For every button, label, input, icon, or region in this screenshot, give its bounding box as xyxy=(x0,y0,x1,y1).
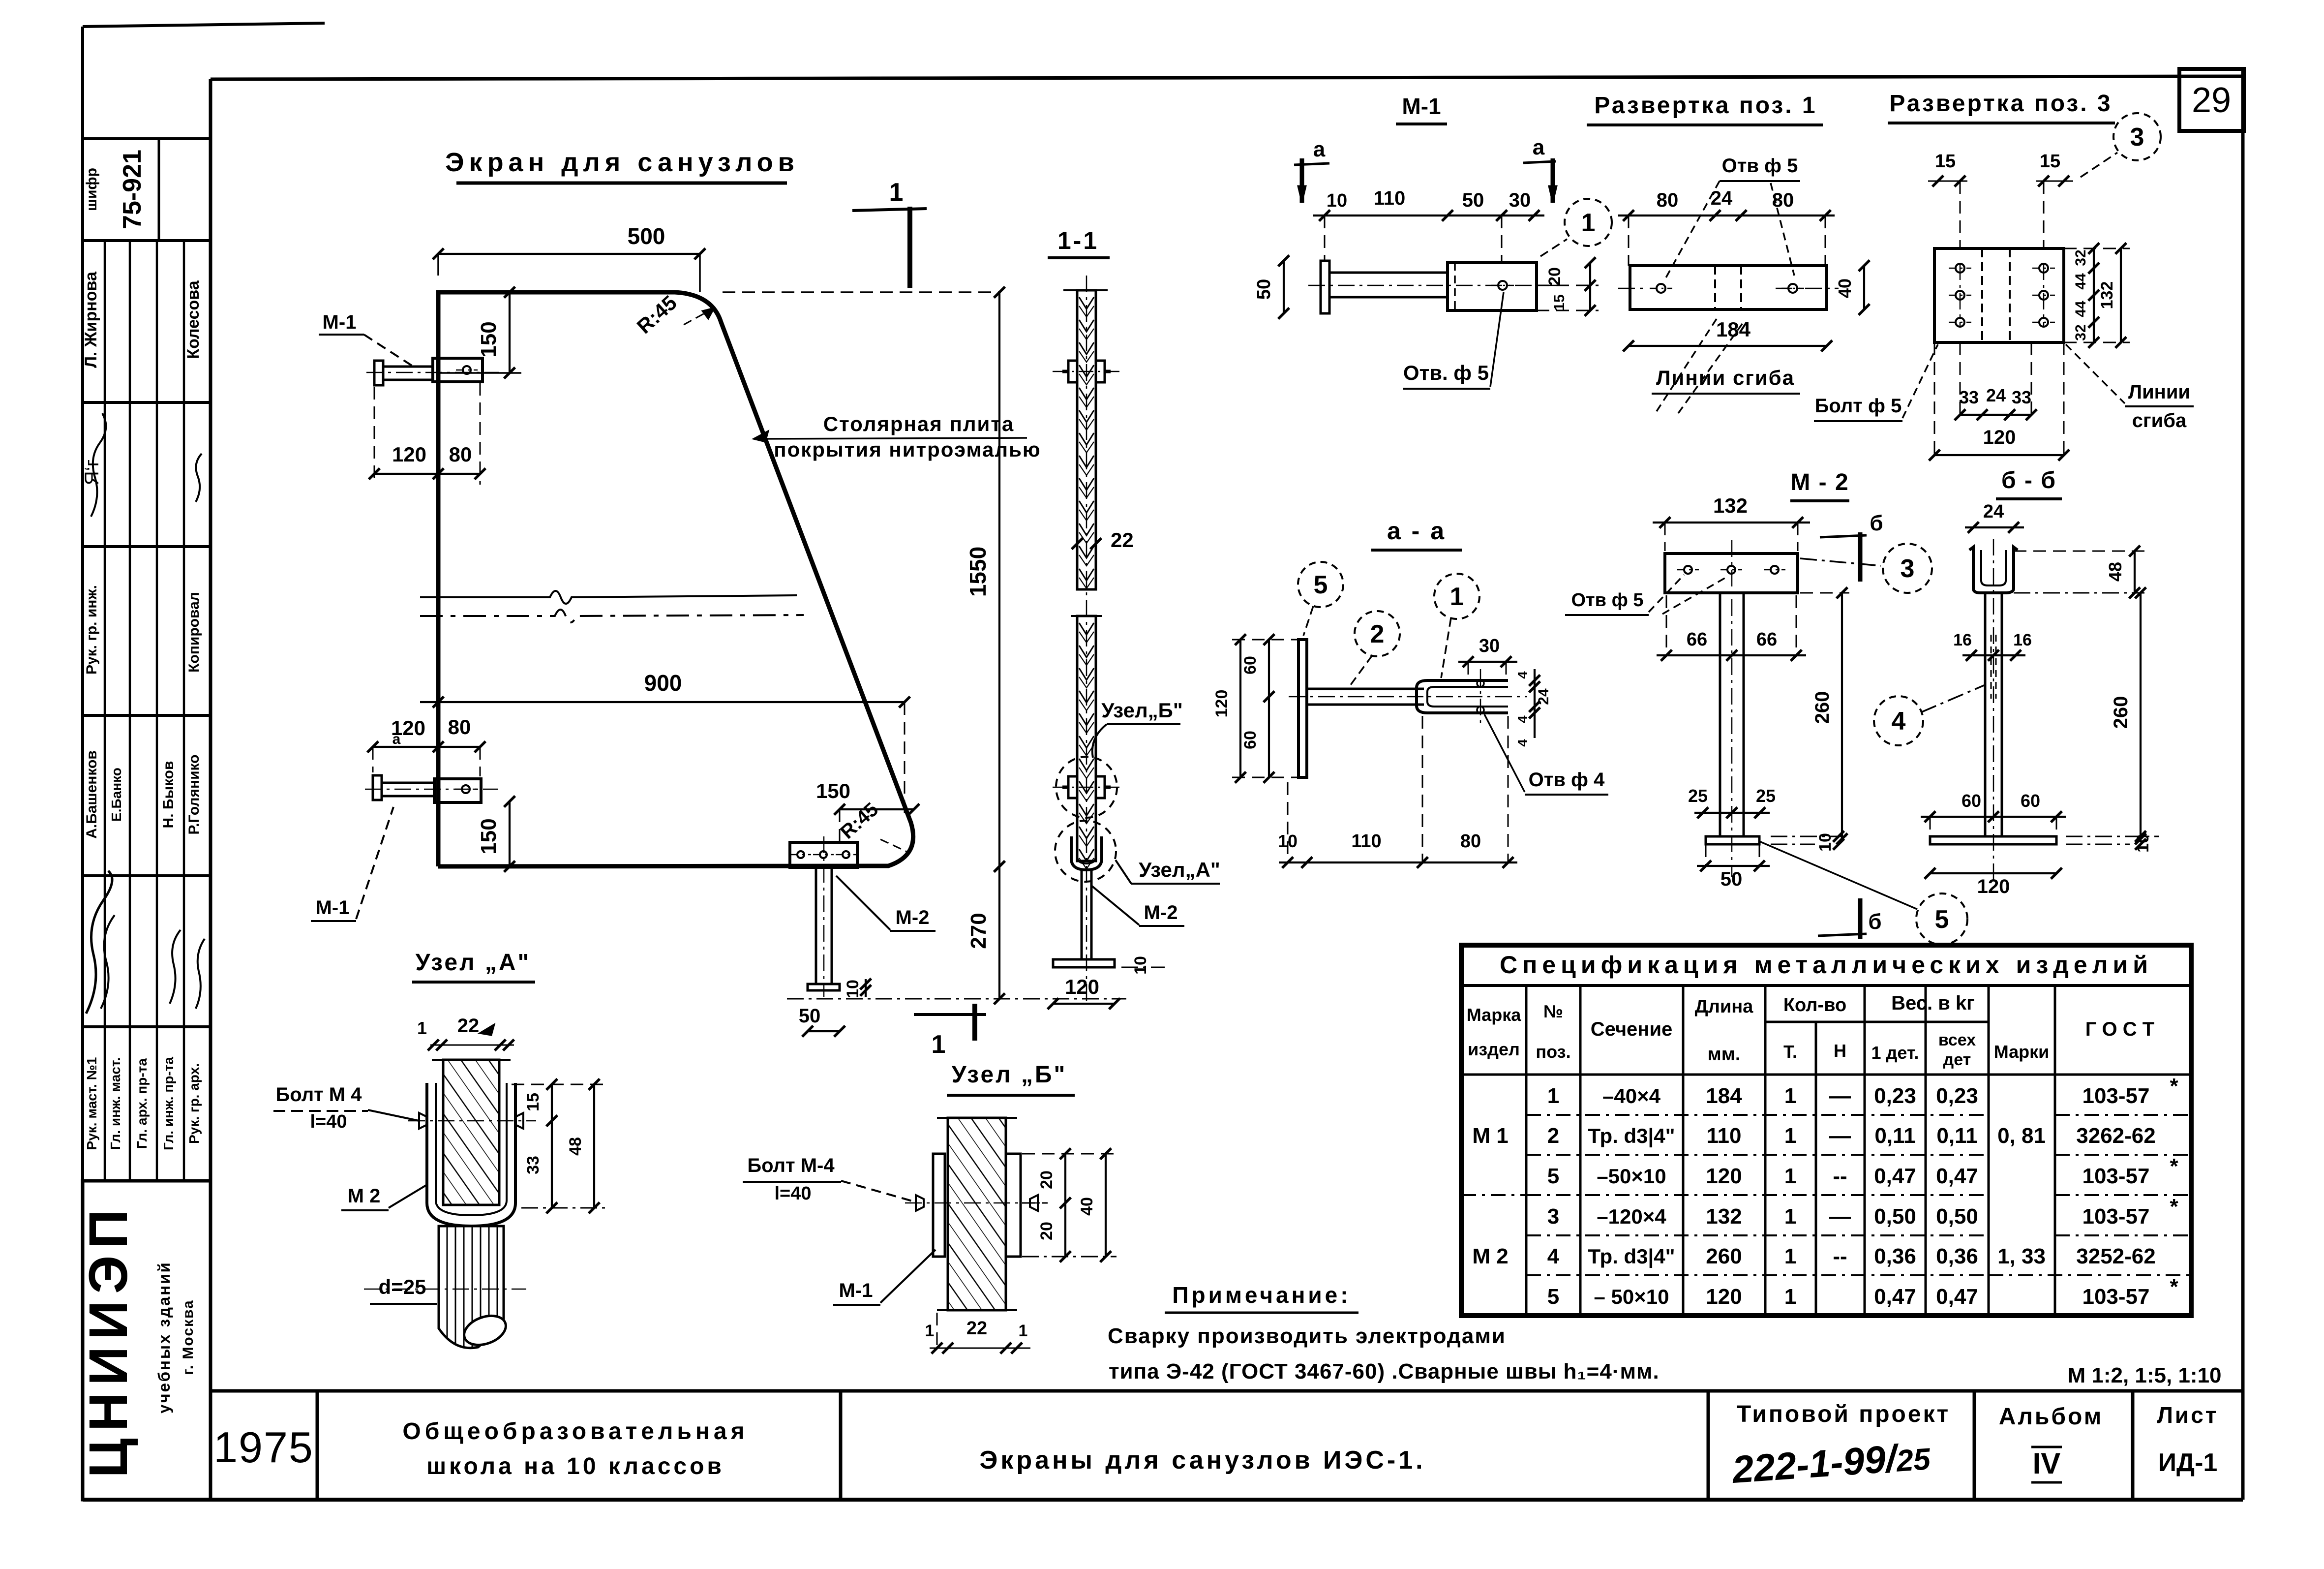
view a-a: position circles xyxy=(1298,562,1479,689)
svg-text:– 50×10: – 50×10 xyxy=(1594,1285,1669,1308)
front view: bracket M-1 lower xyxy=(365,775,498,802)
svg-text:103-57: 103-57 xyxy=(2082,1164,2149,1188)
stamp row: signatures 1 xyxy=(81,413,202,517)
svg-text:0,36: 0,36 xyxy=(1936,1244,1978,1268)
node A title xyxy=(412,950,535,982)
svg-text:*: * xyxy=(2170,1195,2178,1219)
title block: sheet xyxy=(2157,1402,2219,1477)
svg-text:3262-62: 3262-62 xyxy=(2076,1124,2155,1148)
svg-text:30: 30 xyxy=(1479,636,1500,656)
detail M-1 title xyxy=(1396,93,1447,124)
svg-text:22: 22 xyxy=(966,1318,987,1339)
detail M-2: stem xyxy=(1720,540,1744,877)
svg-text:3: 3 xyxy=(2130,123,2144,152)
svg-text:120: 120 xyxy=(1977,876,2010,897)
svg-text:Общеобразовательная: Общеобразовательная xyxy=(402,1418,748,1445)
svg-text:М-1: М-1 xyxy=(316,897,350,919)
svg-text:Рук. гр. инж.: Рук. гр. инж. xyxy=(84,585,100,675)
svg-text:–40×4: –40×4 xyxy=(1602,1084,1661,1108)
svg-text:30: 30 xyxy=(1509,189,1531,211)
svg-text:№: № xyxy=(1543,1001,1563,1021)
front view: screen panel outline xyxy=(438,292,913,866)
svg-text:120: 120 xyxy=(1983,427,2016,448)
svg-text:0,23: 0,23 xyxy=(1936,1084,1978,1108)
svg-text:поз.: поз. xyxy=(1536,1042,1570,1062)
svg-text:80: 80 xyxy=(1772,189,1794,211)
notes: primechanie xyxy=(1108,1282,1660,1384)
svg-text:М - 2: М - 2 xyxy=(1790,469,1849,495)
svg-text:4: 4 xyxy=(1515,671,1530,679)
svg-text:а: а xyxy=(1533,135,1545,159)
svg-text:издел: издел xyxy=(1468,1039,1520,1059)
section 1-1: upper bolt xyxy=(1053,361,1120,382)
stamp row: names xyxy=(84,750,202,838)
svg-text:–50×10: –50×10 xyxy=(1597,1165,1666,1188)
node B: side plates xyxy=(933,1154,1021,1257)
svg-text:24: 24 xyxy=(1986,385,2006,405)
svg-text:120: 120 xyxy=(392,443,426,466)
svg-text:22: 22 xyxy=(457,1015,480,1037)
svg-text:1: 1 xyxy=(925,1322,935,1340)
svg-text:всех: всех xyxy=(1938,1031,1976,1049)
svg-text:—: — xyxy=(1829,1124,1851,1148)
node B: bolt label xyxy=(743,1155,914,1204)
svg-text:Длина: Длина xyxy=(1695,996,1754,1017)
svg-text:--: -- xyxy=(1833,1244,1847,1268)
development pos.3: bolt label xyxy=(1814,344,1938,421)
front view: dimension 500 xyxy=(433,223,705,292)
svg-text:б - б: б - б xyxy=(2001,467,2056,493)
detail M-1: dimension 50 left xyxy=(1254,255,1289,319)
front view: dimension 150 at corner xyxy=(816,779,919,842)
detail M-2: position circle 3 xyxy=(1800,544,1932,593)
svg-text:Отв ф 4: Отв ф 4 xyxy=(1529,769,1605,791)
label M-2 in section xyxy=(1091,886,1184,926)
svg-text:50: 50 xyxy=(1462,189,1484,211)
node A: label M 2 xyxy=(341,1185,427,1210)
svg-text:1: 1 xyxy=(932,1030,946,1059)
svg-text:Сварку производить электрод: Сварку производить электродами xyxy=(1108,1324,1506,1348)
svg-text:типа Э-42 (ГОСТ 3467-60) .Свар: типа Э-42 (ГОСТ 3467-60) .Сварные швы h₁… xyxy=(1109,1359,1660,1384)
svg-text:R:45: R:45 xyxy=(633,291,681,338)
svg-text:Гл. инж. маст.: Гл. инж. маст. xyxy=(108,1057,123,1150)
stamp row: job titles 2 xyxy=(84,585,202,675)
detail M-1: bolt body xyxy=(1308,261,1569,313)
node B: wood post xyxy=(937,1118,1017,1310)
svg-text:20: 20 xyxy=(1037,1170,1056,1189)
svg-text:50: 50 xyxy=(1254,279,1274,300)
svg-text:16: 16 xyxy=(1953,631,1972,649)
front view: dimension 900 xyxy=(420,670,910,817)
view b-b: U channel xyxy=(1969,547,2018,593)
view b-b: dimension 260 xyxy=(2110,587,2146,844)
svg-text:0,47: 0,47 xyxy=(1936,1164,1978,1188)
detail M-2: plate xyxy=(1665,554,1798,593)
svg-text:20: 20 xyxy=(1037,1222,1056,1240)
section mark 1 lower xyxy=(914,1004,986,1059)
node A: label d=25 xyxy=(364,1275,526,1304)
svg-text:25: 25 xyxy=(1756,786,1776,806)
institute block CNIIEP xyxy=(78,1181,211,1500)
svg-text:60: 60 xyxy=(1241,656,1260,675)
front view: plate material label xyxy=(754,412,1041,461)
svg-text:Болт М-4: Болт М-4 xyxy=(747,1155,835,1176)
svg-text:Узел„А": Узел„А" xyxy=(1139,858,1220,881)
title block: year 1975 xyxy=(213,1423,314,1472)
svg-text:110: 110 xyxy=(1351,831,1381,852)
svg-text:1: 1 xyxy=(889,178,904,207)
svg-text:10: 10 xyxy=(1131,956,1150,975)
section 1-1 title xyxy=(1048,227,1110,258)
svg-text:Отв ф 5: Отв ф 5 xyxy=(1571,590,1643,611)
node A: U bracket M2 xyxy=(427,1083,515,1226)
development pos.1: hole label xyxy=(1665,155,1800,279)
stamp: cipher box xyxy=(84,150,147,229)
development pos.3: fold lines label xyxy=(2066,344,2194,431)
front view: break lines xyxy=(420,591,804,622)
svg-text:132: 132 xyxy=(1706,1204,1742,1229)
section 1-1: lower bolt node B xyxy=(1053,757,1120,818)
view a-a: fork pos 1 xyxy=(1417,669,1508,723)
stamp column grid xyxy=(83,139,211,1181)
front view: dimension 1550 xyxy=(723,287,1005,872)
svg-text:Рук. маст. №1: Рук. маст. №1 xyxy=(84,1057,99,1150)
svg-text:0,47: 0,47 xyxy=(1936,1285,1978,1309)
svg-text:10: 10 xyxy=(1327,190,1347,211)
svg-text:60: 60 xyxy=(1962,791,1981,811)
svg-text:а - а: а - а xyxy=(1387,517,1446,545)
svg-text:80: 80 xyxy=(448,715,471,738)
svg-text:Развертка поз. 3: Развертка поз. 3 xyxy=(1889,91,2112,117)
svg-text:Экран для санузлов: Экран для санузлов xyxy=(445,148,799,177)
svg-text:б: б xyxy=(1870,511,1883,535)
node A: bolt label xyxy=(273,1084,419,1132)
svg-text:l=40: l=40 xyxy=(310,1111,347,1132)
svg-text:Примечание:: Примечание: xyxy=(1172,1282,1351,1308)
detail M-1: dimension row 10 110 50 30 xyxy=(1313,187,1544,261)
front view: dimension 150 top xyxy=(438,287,521,378)
svg-text:110: 110 xyxy=(1707,1124,1742,1148)
svg-text:а: а xyxy=(1313,137,1326,161)
svg-text:2: 2 xyxy=(1547,1124,1559,1148)
svg-text:184: 184 xyxy=(1706,1084,1742,1108)
svg-text:d=25: d=25 xyxy=(379,1275,426,1298)
svg-text:ЦНИИЭП: ЦНИИЭП xyxy=(78,1202,139,1477)
detail M-2: hole label xyxy=(1565,575,1727,615)
svg-text:*: * xyxy=(2170,1074,2178,1098)
svg-text:1: 1 xyxy=(1547,1084,1559,1108)
front view: dimension 270 xyxy=(966,861,1005,1004)
svg-text:а: а xyxy=(392,731,401,747)
title block: album xyxy=(1999,1404,2104,1482)
svg-text:40: 40 xyxy=(1835,278,1855,298)
title block: school name xyxy=(402,1418,748,1479)
svg-text:М-2: М-2 xyxy=(1144,902,1178,923)
svg-text:Колесова: Колесова xyxy=(184,280,203,359)
svg-text:500: 500 xyxy=(628,223,665,249)
svg-text:сгиба: сгиба xyxy=(2132,410,2187,431)
svg-text:Марка: Марка xyxy=(1467,1005,1521,1025)
svg-text:120: 120 xyxy=(1212,690,1231,718)
svg-text:Спецификация металлических: Спецификация металлических изделий xyxy=(1500,951,2153,979)
label M-1 upper xyxy=(319,311,416,368)
svg-text:260: 260 xyxy=(1811,691,1833,724)
front view: bracket M-2 xyxy=(787,836,1126,999)
svg-text:1: 1 xyxy=(1784,1164,1796,1188)
sheet number box 29 xyxy=(2179,69,2244,131)
svg-text:Лист: Лист xyxy=(2157,1402,2219,1428)
development pos.1: fold lines label xyxy=(1652,319,1800,413)
svg-text:Г О С Т: Г О С Т xyxy=(2085,1018,2154,1040)
svg-text:66: 66 xyxy=(1756,629,1777,650)
svg-text:33: 33 xyxy=(524,1156,543,1174)
svg-text:1: 1 xyxy=(1784,1124,1796,1148)
view b-b: dim 120 xyxy=(1925,868,2062,897)
svg-text:—: — xyxy=(1829,1084,1851,1108)
svg-text:80: 80 xyxy=(449,443,472,466)
svg-text:Линии: Линии xyxy=(2128,381,2190,403)
detail M-1: dimension 20 right xyxy=(1537,257,1599,316)
svg-text:—: — xyxy=(1829,1204,1851,1229)
front view: radius label R45 top xyxy=(633,291,714,338)
development pos.3: bottom dims 33 24 33 xyxy=(1955,342,2037,420)
development pos.1: dimension 80 24 80 xyxy=(1618,187,1835,266)
svg-text:10: 10 xyxy=(1816,833,1835,852)
svg-text:3252-62: 3252-62 xyxy=(2076,1244,2155,1268)
node A: right dims 15 33 48 xyxy=(512,1079,605,1213)
svg-text:Экраны для санузлов ИЭС-1.: Экраны для санузлов ИЭС-1. xyxy=(979,1446,1425,1475)
svg-text:0,11: 0,11 xyxy=(1874,1124,1915,1148)
svg-text:50: 50 xyxy=(1720,868,1743,890)
node A: bolt xyxy=(408,1113,536,1129)
section 1-1: thickness 22 xyxy=(1072,528,1134,552)
svg-text:3: 3 xyxy=(1547,1204,1559,1229)
svg-text:32: 32 xyxy=(2073,324,2089,340)
node B title xyxy=(947,1062,1075,1095)
view b-b: position circle 4 xyxy=(1874,685,1985,745)
svg-text:103-57: 103-57 xyxy=(2082,1084,2149,1108)
svg-text:г. Москва: г. Москва xyxy=(180,1299,196,1375)
main heading xyxy=(445,148,799,183)
svg-text:25: 25 xyxy=(1688,786,1708,806)
svg-text:Н. Быков: Н. Быков xyxy=(160,761,177,829)
svg-text:Болт ф 5: Болт ф 5 xyxy=(1815,395,1902,417)
svg-text:260: 260 xyxy=(2110,696,2132,729)
svg-text:103-57: 103-57 xyxy=(2082,1204,2149,1229)
svg-text:103-57: 103-57 xyxy=(2082,1285,2149,1309)
svg-text:0,50: 0,50 xyxy=(1874,1204,1916,1229)
svg-text:66: 66 xyxy=(1687,629,1707,650)
detail M-2: dim 50 xyxy=(1697,844,1770,890)
svg-text:1550: 1550 xyxy=(965,547,991,597)
svg-text:75-921: 75-921 xyxy=(118,150,147,229)
svg-text:132: 132 xyxy=(2098,281,2116,309)
svg-text:222-1-99/25: 222-1-99/25 xyxy=(1730,1434,1932,1491)
svg-text:Сечение: Сечение xyxy=(1591,1018,1673,1040)
svg-text:А.Башенков: А.Башенков xyxy=(84,750,100,838)
svg-text:15: 15 xyxy=(2040,151,2060,172)
svg-text:Отв. ф 5: Отв. ф 5 xyxy=(1403,361,1489,384)
front view: dimensions 120 80 lower xyxy=(367,715,485,776)
label node B xyxy=(1092,699,1183,758)
svg-text:4: 4 xyxy=(1547,1244,1560,1268)
svg-text:Типовой проект: Типовой проект xyxy=(1737,1401,1950,1427)
svg-text:Марки: Марки xyxy=(1994,1042,2050,1062)
svg-text:1: 1 xyxy=(1581,209,1596,237)
svg-text:0,36: 0,36 xyxy=(1874,1244,1916,1268)
svg-text:0,11: 0,11 xyxy=(1936,1124,1977,1148)
svg-text:24: 24 xyxy=(1536,688,1552,705)
node B: label M-1 xyxy=(833,1250,936,1305)
specification table grid xyxy=(1461,945,2191,1316)
svg-text:1 дет.: 1 дет. xyxy=(1871,1043,1919,1063)
svg-text:29: 29 xyxy=(2192,81,2231,120)
development pos.1: dimension 40 xyxy=(1835,260,1870,315)
svg-text:5: 5 xyxy=(1547,1285,1559,1309)
section 1-1: node A U-bracket xyxy=(1055,821,1116,882)
svg-text:*: * xyxy=(2170,1154,2178,1178)
front view: bracket M-1 upper xyxy=(366,358,499,385)
svg-text:150: 150 xyxy=(816,779,850,802)
view a-a: plate pos 5 xyxy=(1298,640,1307,777)
detail M-2: section marks b xyxy=(1818,511,1883,939)
development pos.3: top dims 15 15 xyxy=(1928,151,2073,248)
section 1-1: foot dims xyxy=(1048,956,1165,1009)
development pos.1: dimension 184 xyxy=(1623,318,1832,351)
svg-text:ИД-1: ИД-1 xyxy=(2158,1448,2218,1477)
detail M-2: foot xyxy=(1706,836,1759,844)
svg-text:4: 4 xyxy=(1515,739,1530,747)
detail M-2: dimension 260 xyxy=(1800,587,1849,844)
svg-text:учебных зданий: учебных зданий xyxy=(155,1261,173,1414)
svg-text:0,47: 0,47 xyxy=(1874,1285,1916,1309)
svg-text:0, 81: 0, 81 xyxy=(1997,1124,2046,1148)
svg-text:М 2: М 2 xyxy=(1472,1244,1508,1268)
svg-text:80: 80 xyxy=(1460,831,1481,852)
svg-text:40: 40 xyxy=(1078,1197,1096,1216)
detail M-1: position circle 1 xyxy=(1540,199,1612,256)
svg-text:0,47: 0,47 xyxy=(1874,1164,1916,1188)
detail M-2: position circle 5 xyxy=(1759,841,1967,945)
development pos.3: plate xyxy=(1934,248,2064,342)
specification table data xyxy=(1472,1074,2178,1309)
section 1-1: M-2 stem and foot xyxy=(1053,870,1115,967)
svg-text:150: 150 xyxy=(477,818,501,854)
svg-text:б: б xyxy=(1868,910,1881,934)
section 1-1: plank upper part xyxy=(1063,276,1108,1004)
svg-text:44: 44 xyxy=(2073,273,2089,290)
detail M-1: hole label xyxy=(1403,292,1504,389)
svg-text:120: 120 xyxy=(1706,1285,1742,1309)
front view: dimensions 120 80 upper xyxy=(369,383,485,485)
svg-text:IV: IV xyxy=(2033,1447,2061,1480)
svg-text:--: -- xyxy=(1833,1164,1847,1188)
svg-text:2: 2 xyxy=(1370,620,1385,648)
detail M-2: dimension 132 xyxy=(1653,494,1810,551)
development pos.3: dimension 120 xyxy=(1929,342,2069,461)
svg-text:1-1: 1-1 xyxy=(1057,227,1099,254)
svg-text:Н: Н xyxy=(1834,1041,1846,1061)
svg-text:Л. Жирнова: Л. Жирнова xyxy=(82,271,100,368)
svg-text:24: 24 xyxy=(1983,501,2004,522)
section mark 1 upper xyxy=(852,178,927,288)
node B: right dims 20 20 40 xyxy=(1022,1148,1117,1262)
label M-2 on panel xyxy=(836,876,936,931)
svg-text:Т.: Т. xyxy=(1783,1042,1797,1062)
svg-text:М-2: М-2 xyxy=(896,907,930,928)
svg-text:1: 1 xyxy=(417,1018,427,1038)
svg-text:М 1: М 1 xyxy=(1472,1124,1508,1148)
label node A xyxy=(1116,858,1220,884)
svg-text:44: 44 xyxy=(2073,301,2089,317)
specification table header xyxy=(1467,951,2154,1069)
svg-text:Р.Голянико: Р.Голянико xyxy=(186,754,202,834)
svg-text:Альбом: Альбом xyxy=(1999,1404,2104,1430)
svg-text:1975: 1975 xyxy=(213,1423,314,1472)
title block: drawing name xyxy=(979,1446,1425,1475)
svg-text:*: * xyxy=(2170,1275,2178,1299)
svg-text:Узел„Б": Узел„Б" xyxy=(1101,699,1183,722)
svg-text:16: 16 xyxy=(2013,631,2032,649)
svg-text:15: 15 xyxy=(1935,151,1956,172)
svg-text:Узел „А": Узел „А" xyxy=(416,950,531,976)
view a-a: small dims 4 24 4 xyxy=(1515,669,1552,747)
svg-text:школа на 10 классов: школа на 10 классов xyxy=(426,1453,724,1479)
svg-text:Копировал: Копировал xyxy=(186,592,202,673)
stamp row: checked names xyxy=(82,271,203,368)
svg-text:1: 1 xyxy=(1784,1204,1796,1229)
node A: round post xyxy=(439,1226,510,1350)
view b-b: dim 48 xyxy=(2014,546,2144,598)
node B: bolt xyxy=(905,1195,1053,1211)
svg-text:5: 5 xyxy=(1935,905,1949,934)
front view: dimension 10 foot xyxy=(844,979,871,998)
svg-text:Кол-во: Кол-во xyxy=(1783,995,1846,1015)
svg-text:М-1: М-1 xyxy=(1402,93,1441,119)
svg-text:мм.: мм. xyxy=(1708,1044,1741,1065)
svg-text:Столярная плита: Столярная плита xyxy=(823,412,1015,435)
svg-text:Гл. арх. пр-та: Гл. арх. пр-та xyxy=(134,1058,150,1149)
node A: wood post xyxy=(432,1060,511,1205)
svg-text:60: 60 xyxy=(2021,791,2040,811)
svg-text:33: 33 xyxy=(2012,387,2031,407)
development pos.3 title xyxy=(1888,91,2115,123)
svg-text:80: 80 xyxy=(1657,189,1679,211)
svg-text:шифр: шифр xyxy=(84,168,100,211)
svg-text:Отв ф 5: Отв ф 5 xyxy=(1722,155,1798,177)
svg-text:48: 48 xyxy=(566,1137,585,1156)
svg-text:М 1:2, 1:5, 1:10: М 1:2, 1:5, 1:10 xyxy=(2067,1363,2221,1387)
svg-text:150: 150 xyxy=(477,321,501,357)
scale note xyxy=(2067,1363,2221,1387)
svg-text:Развертка поз. 1: Развертка поз. 1 xyxy=(1594,92,1817,119)
svg-text:900: 900 xyxy=(644,670,682,696)
stamp row: approvals xyxy=(84,1057,202,1150)
svg-text:0,23: 0,23 xyxy=(1874,1084,1916,1108)
development pos.1 title xyxy=(1587,92,1823,125)
svg-text:Узел „Б": Узел „Б" xyxy=(952,1062,1067,1088)
view b-b: dim 24 xyxy=(1965,501,2024,533)
view a-a title xyxy=(1371,517,1462,550)
svg-text:32: 32 xyxy=(2073,249,2089,266)
view a-a: hole label xyxy=(1484,714,1608,795)
svg-text:15: 15 xyxy=(1551,294,1568,310)
detail M-2: dims 25 25 xyxy=(1688,786,1776,818)
svg-text:110: 110 xyxy=(1374,187,1406,209)
svg-text:Е.Банко: Е.Банко xyxy=(109,768,124,822)
svg-text:48: 48 xyxy=(2105,562,2125,582)
view b-b: foot xyxy=(1930,836,2056,844)
